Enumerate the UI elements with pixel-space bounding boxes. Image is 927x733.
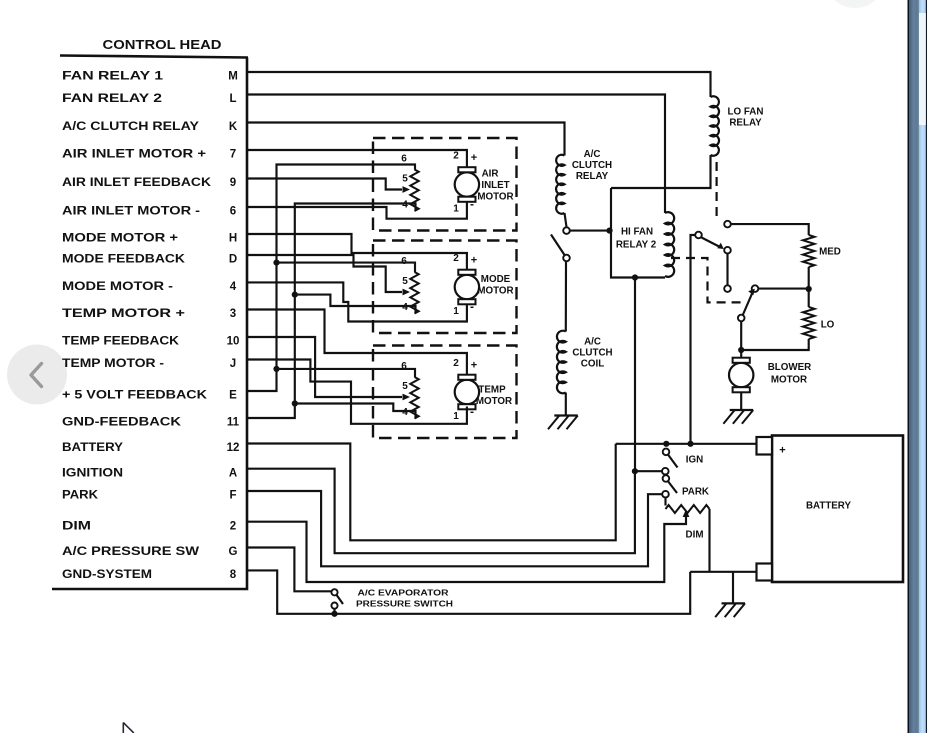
svg-text:4: 4 (402, 302, 408, 313)
svg-text:6: 6 (401, 256, 407, 267)
lo fan relay coil (711, 96, 720, 156)
svg-text:G: G (229, 546, 238, 558)
ac clutch relay contact lower (563, 255, 570, 262)
ac clutch coil (557, 331, 566, 394)
battery minus terminal tab (757, 564, 773, 581)
wire dim rheostat to ground line (708, 509, 710, 572)
svg-text:GND-FEEDBACK: GND-FEEDBACK (62, 417, 182, 429)
mouse cursor (123, 723, 134, 733)
wire pin M to lo fan relay (247, 72, 711, 97)
wire +5V branch to mode pot 6 (277, 263, 416, 272)
svg-text:COIL: COIL (581, 359, 604, 370)
svg-text:AIR INLET MOTOR +: AIR INLET MOTOR + (62, 149, 206, 161)
top-right ghost circle (825, 0, 885, 8)
wire blower node to motor (740, 350, 742, 360)
park switch contact upper (662, 468, 669, 475)
ground blower motor (723, 410, 753, 424)
node +5V to mode pot (273, 260, 279, 266)
svg-text:MOTOR: MOTOR (477, 286, 513, 297)
wire pin 7 to air motor + (247, 150, 467, 167)
svg-text:+: + (471, 152, 477, 164)
pressure switch contact upper (331, 589, 337, 595)
wire pin E +5V riser (247, 165, 415, 392)
svg-text:A/C: A/C (584, 149, 601, 160)
node GND to temp pot (292, 400, 298, 406)
svg-text:4: 4 (402, 407, 408, 418)
blower switch blade 2 (743, 293, 753, 315)
svg-text:MOTOR: MOTOR (771, 375, 807, 386)
park switch contact lower (662, 491, 669, 498)
hi fan relay 2 box left (611, 188, 665, 278)
svg-text:7: 7 (230, 149, 236, 161)
svg-text:IGNITION: IGNITION (62, 467, 123, 479)
battery plus terminal tab (757, 437, 773, 455)
mode wiper arrow (403, 289, 411, 296)
svg-text:LO: LO (821, 320, 835, 331)
svg-text:A: A (229, 467, 237, 479)
svg-text:MODE MOTOR +: MODE MOTOR + (62, 233, 178, 245)
wire GND branch to mode pot 4 (295, 295, 416, 314)
svg-text:+ 5 VOLT FEEDBACK: + 5 VOLT FEEDBACK (62, 390, 208, 402)
wire +5V branch to temp pot 6 (277, 369, 416, 377)
svg-text:5: 5 (402, 174, 408, 185)
svg-text:RELAY: RELAY (576, 171, 609, 182)
dim wiper arrow (683, 510, 690, 518)
ign switch contact (663, 449, 670, 456)
wire mid contact down (726, 254, 728, 286)
wire battery ground stem (732, 572, 734, 604)
svg-text:6: 6 (230, 206, 236, 218)
svg-text:RELAY: RELAY (729, 118, 762, 129)
control head box (52, 56, 248, 590)
svg-text:2: 2 (453, 358, 459, 369)
ac clutch relay contact upper (563, 227, 570, 234)
wire pin 11 GND riser (247, 204, 416, 419)
blower contact mid (724, 247, 731, 254)
svg-text:FAN RELAY 2: FAN RELAY 2 (62, 93, 162, 105)
ground ac clutch coil (548, 416, 578, 430)
air inlet motor U1 position pot (410, 170, 418, 212)
wire ac relay to clutch coil (565, 262, 567, 332)
svg-text:6: 6 (401, 361, 407, 372)
svg-text:1: 1 (453, 411, 459, 422)
svg-text:MODE MOTOR -: MODE MOTOR - (62, 281, 173, 293)
svg-text:TEMP MOTOR +: TEMP MOTOR + (62, 308, 185, 320)
svg-text:TEMP MOTOR -: TEMP MOTOR - (62, 358, 164, 370)
wire lo contact to blower (740, 322, 742, 351)
svg-text:A/C CLUTCH RELAY: A/C CLUTCH RELAY (62, 121, 199, 133)
mode motor U2 actuator dashed box (373, 241, 517, 334)
node med-lo junction (806, 286, 812, 292)
node +5V to temp pot (273, 366, 279, 372)
wire pin 10 to temp pot wiper (247, 337, 402, 397)
node blower feed (687, 441, 693, 447)
ac clutch relay coil (556, 155, 564, 214)
wire pin J to temp motor - (247, 360, 467, 424)
svg-text:6: 6 (401, 154, 407, 165)
wire pin 2 to dim wiper (247, 517, 686, 582)
svg-text:BLOWER: BLOWER (768, 362, 812, 373)
wire ac clutch coil to ground (565, 393, 567, 416)
svg-text:+: + (471, 255, 477, 267)
air inlet motor U1 motor (455, 167, 479, 202)
wire battery plus feed (616, 443, 757, 445)
right blue sidebar (908, 0, 910, 733)
wire ac relay contact to hi fan box (570, 230, 610, 232)
wire pin F to park contact (247, 491, 662, 566)
svg-text:CONTROL HEAD: CONTROL HEAD (103, 38, 222, 52)
svg-text:MODE FEEDBACK: MODE FEEDBACK (62, 254, 186, 266)
svg-text:MOTOR: MOTOR (477, 192, 513, 203)
wire pin H to mode motor + (247, 234, 467, 270)
svg-text:MED: MED (819, 247, 841, 258)
wire GND branch to temp pot 4 (295, 404, 416, 419)
wire pin D to mode pot wiper (247, 255, 402, 292)
svg-text:TEMP FEEDBACK: TEMP FEEDBACK (62, 336, 180, 348)
svg-text:8: 8 (230, 569, 237, 581)
dim rheostat (666, 505, 710, 513)
node ign-hifan junction (632, 468, 638, 474)
svg-text:2: 2 (453, 151, 459, 162)
temp wiper arrow (403, 394, 411, 401)
ac clutch relay blade (551, 235, 565, 256)
svg-text:A/C: A/C (584, 337, 601, 348)
sidebar scrollbar thumb (919, 13, 926, 125)
svg-text:2: 2 (230, 520, 236, 532)
node pressure switch gnd (331, 611, 337, 617)
svg-text:+: + (779, 445, 785, 457)
pressure switch contact lower (331, 603, 337, 609)
lo fan relay linkage dashed (715, 162, 717, 217)
svg-text:12: 12 (227, 442, 240, 454)
resistor LO (803, 307, 815, 339)
mode motor U2 motor (455, 270, 479, 305)
resistor MED (803, 235, 815, 267)
svg-text:RELAY 2: RELAY 2 (616, 240, 657, 251)
wire pin 6 to air motor - (247, 202, 467, 219)
svg-text:3: 3 (230, 308, 236, 320)
wire blower motor to ground (740, 393, 742, 411)
svg-text:H: H (229, 233, 237, 245)
svg-text:AIR INLET MOTOR -: AIR INLET MOTOR - (62, 206, 200, 218)
wire med contact to resistor (731, 224, 809, 235)
wire ac clutch relay coil to contact (565, 213, 567, 227)
svg-text:1: 1 (453, 204, 459, 215)
air wiper arrow (403, 186, 411, 193)
blower contact med (724, 221, 731, 228)
svg-text:GND-SYSTEM: GND-SYSTEM (62, 569, 152, 581)
wire hi fan to ign node (634, 278, 636, 472)
node blower top (738, 347, 744, 353)
svg-text:A/C EVAPORATOR: A/C EVAPORATOR (358, 588, 450, 598)
svg-text:D: D (229, 254, 237, 266)
wire lo fan coil to hi fan box (611, 155, 711, 188)
hi fan relay linkage dashed (671, 258, 746, 302)
battery box (772, 436, 903, 583)
node GND to mode pot (292, 292, 298, 298)
svg-text:DIM: DIM (686, 530, 704, 541)
svg-text:5: 5 (402, 381, 408, 392)
wire ign node to park contact (635, 470, 662, 472)
blower lo contact (738, 315, 745, 322)
svg-text:J: J (230, 358, 236, 370)
svg-text:4: 4 (402, 200, 408, 211)
temp motor U3 position pot (410, 377, 418, 419)
svg-text:INLET: INLET (481, 180, 509, 191)
svg-text:HI FAN: HI FAN (621, 227, 653, 238)
pressure switch blade (337, 595, 343, 604)
wire battery minus line (690, 571, 756, 573)
wire pin L to hi fan relay coil (247, 95, 665, 214)
blower switch pivot (695, 232, 702, 239)
mode motor U2 position pot (410, 272, 418, 314)
svg-text:9: 9 (230, 177, 236, 189)
wire med resistor to node (808, 267, 810, 289)
svg-text:M: M (228, 71, 238, 83)
svg-text:10: 10 (227, 336, 240, 348)
wire park contact to dim rheostat (664, 498, 666, 506)
node hi fan box left (606, 228, 612, 234)
svg-text:L: L (229, 93, 236, 105)
wire pin K to ac clutch relay (247, 123, 565, 156)
svg-text:1: 1 (453, 306, 459, 317)
svg-text:4: 4 (230, 281, 237, 293)
svg-text:BATTERY: BATTERY (62, 442, 123, 454)
svg-text:AIR INLET FEEDBACK: AIR INLET FEEDBACK (62, 177, 212, 189)
svg-text:F: F (229, 490, 236, 502)
wire pin 4 to mode motor - (247, 282, 467, 321)
wire pin 8 gnd system (247, 570, 690, 613)
blower contact mid lower (724, 285, 731, 292)
node hi fan coil bottom (632, 274, 638, 280)
wire pin G to pressure switch (247, 548, 331, 592)
svg-text:2: 2 (453, 253, 459, 264)
wire blower common riser (691, 235, 696, 444)
wire lo resistor to blower node (741, 339, 809, 350)
svg-text:PRESSURE SWITCH: PRESSURE SWITCH (356, 599, 453, 609)
svg-text:MODE: MODE (481, 274, 511, 285)
svg-text:PARK: PARK (62, 490, 99, 502)
hi fan relay 2 coil (665, 212, 674, 277)
blower contact lo-row (752, 285, 759, 292)
left nav chevron button (7, 345, 67, 405)
blower blade 2 arrowhead (748, 289, 755, 296)
blower motor (729, 358, 753, 393)
svg-text:E: E (229, 390, 237, 402)
svg-text:CLUTCH: CLUTCH (572, 348, 612, 359)
temp motor U3 actuator dashed box (373, 346, 517, 439)
svg-text:5: 5 (402, 276, 408, 287)
wire pressure switch to gnd line (333, 609, 335, 614)
wire pin A to ign node (247, 469, 635, 554)
svg-text:K: K (229, 121, 238, 133)
wire pin 3 to temp motor + (247, 310, 467, 375)
svg-text:CLUTCH: CLUTCH (572, 160, 612, 171)
svg-text:+: + (471, 360, 477, 372)
svg-text:FAN RELAY 1: FAN RELAY 1 (62, 71, 164, 83)
temp motor U3 motor (455, 375, 479, 410)
node ign switch feed (663, 441, 669, 447)
svg-text:IGN: IGN (686, 454, 703, 465)
wire lo-row contact to node (759, 288, 809, 290)
svg-text:DIM: DIM (62, 520, 91, 532)
svg-text:A/C PRESSURE SW: A/C PRESSURE SW (62, 546, 199, 558)
svg-text:TEMP: TEMP (478, 385, 506, 396)
svg-text:LO FAN: LO FAN (728, 107, 764, 118)
blower switch blade 1 (702, 238, 722, 248)
air inlet motor U1 actuator dashed box (373, 138, 517, 231)
ign switch blade (668, 455, 677, 468)
ground battery (715, 603, 745, 617)
wire pin 12 to battery (247, 444, 616, 541)
svg-text:MOTOR: MOTOR (476, 396, 512, 407)
park switch blade (668, 482, 677, 494)
svg-text:11: 11 (227, 417, 240, 429)
park switch contact mid (663, 475, 670, 482)
wire pin 9 to air pot wiper (247, 179, 402, 190)
svg-text:BATTERY: BATTERY (806, 501, 851, 512)
svg-text:PARK: PARK (682, 487, 709, 498)
blower blade 1 arrowhead (717, 243, 724, 249)
svg-text:AIR: AIR (482, 169, 499, 180)
wire lo junction to resistor (808, 289, 810, 307)
